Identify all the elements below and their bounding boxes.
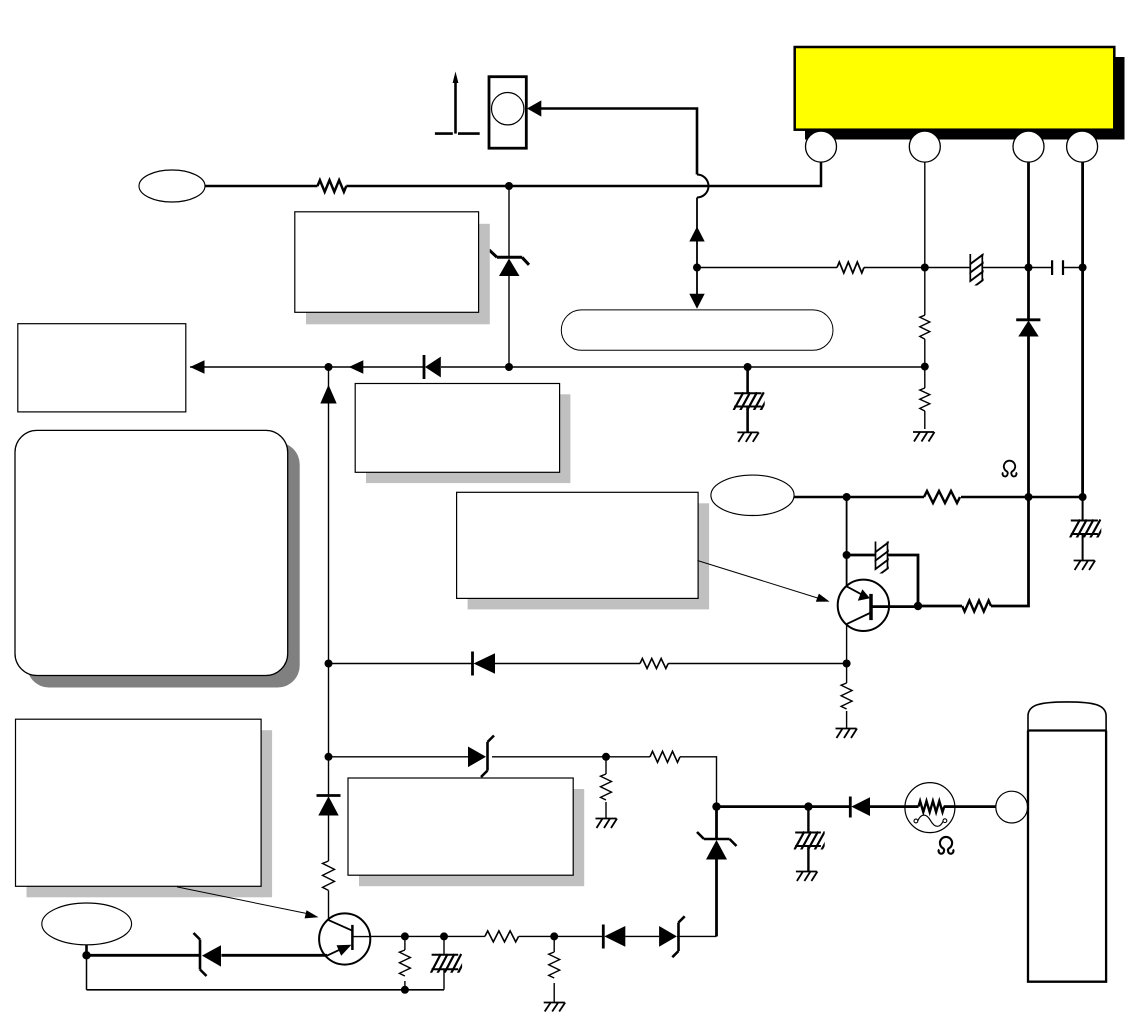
ground G4 xyxy=(836,729,858,739)
arrow into meter xyxy=(527,100,541,116)
node y756/R7v xyxy=(602,753,610,761)
node y936/R10v xyxy=(401,932,409,940)
wire bottom line y989 xyxy=(87,989,445,991)
node y497/pin4 xyxy=(1079,493,1087,501)
label box B4 shadow xyxy=(468,503,709,609)
label box B1 shadow xyxy=(306,224,490,324)
resistor R5 xyxy=(640,659,668,669)
ground G6 xyxy=(796,872,818,882)
cylinder probe xyxy=(1028,702,1106,982)
arrow into B2 xyxy=(190,360,205,373)
wire line y367 xyxy=(190,366,925,368)
wire zener drop xyxy=(508,186,510,367)
pin 2 circle xyxy=(909,131,940,162)
node y806/cap xyxy=(804,802,812,810)
feedthrough filter F1 (hatched) xyxy=(969,253,985,291)
wire thick emitter line y955 xyxy=(87,954,328,957)
capacitor C5 (hatched) + wires xyxy=(443,936,445,989)
terminal oval IN1 xyxy=(139,170,205,202)
resistor R2 xyxy=(837,262,864,273)
wire collector drop xyxy=(846,497,848,586)
wire junction down xyxy=(696,268,698,297)
impulse signal icon xyxy=(435,72,480,134)
label box B1 xyxy=(295,212,479,312)
wire pin4 to cap xyxy=(1082,497,1084,560)
ground G7 xyxy=(544,1003,566,1012)
wire hop to junction xyxy=(696,198,698,268)
wire cap drop y806 xyxy=(807,807,809,872)
node pin2/line367 xyxy=(921,363,929,371)
terminal oval IN3 xyxy=(42,903,132,945)
wire R4 to base node xyxy=(847,555,962,606)
node y267/pin4 xyxy=(1079,264,1087,272)
node y497/collector xyxy=(843,493,851,501)
resistor R9v on spine xyxy=(323,861,335,890)
arrow down to transfer pill xyxy=(689,294,704,309)
ground G1 xyxy=(737,432,759,442)
node bus/zener junction xyxy=(505,182,513,190)
capacitor C3 (hatched) xyxy=(732,392,770,412)
resistor R10v + wires xyxy=(404,936,406,989)
rounded transfer pill xyxy=(561,310,833,350)
node y663/spine xyxy=(325,660,333,668)
wire hop over bus xyxy=(697,175,709,198)
zener ZD3 below y806 node (pointing up) xyxy=(697,807,737,937)
resistor R4 (thick line) xyxy=(962,601,991,612)
lamp/thermistor TH1 xyxy=(905,783,955,833)
node y497/pin3 xyxy=(1025,493,1033,501)
capacitor C2 (hatched) xyxy=(1069,520,1107,540)
label box B2 (top-left plain) xyxy=(18,324,186,412)
resistor R7v + wire xyxy=(605,757,607,819)
node junction on vertical xyxy=(693,264,701,272)
transistor Q2 xyxy=(319,913,370,964)
wire y497 xyxy=(794,496,1083,499)
node y756/spine xyxy=(325,753,333,761)
capacitor C1 xyxy=(1052,260,1063,275)
zener ZD4 (pointing left) xyxy=(194,933,222,976)
annotation arrow B5 to Q2 xyxy=(177,887,319,919)
label box B4 xyxy=(457,492,698,598)
node y936/R12v xyxy=(550,932,558,940)
node y267/pin3 xyxy=(1025,264,1033,272)
yellow header box shadow xyxy=(805,57,1125,140)
wire line y663 xyxy=(329,663,847,665)
diode D7 (pointing left) xyxy=(850,797,870,818)
node collector top xyxy=(843,551,851,559)
diode D8 (pointing left) xyxy=(603,925,625,949)
meter M1 (rect with circle) xyxy=(489,77,526,149)
ohm symbol 2 xyxy=(939,837,954,854)
wire cap drop y367 xyxy=(746,367,749,432)
arrow up on spine xyxy=(320,385,336,404)
annotation arrow B4 to Q1 xyxy=(697,561,829,602)
node y663/emitter xyxy=(843,660,851,668)
label box B3 xyxy=(355,384,559,473)
terminal circle to cylinder xyxy=(996,791,1028,823)
transistor Q1 xyxy=(838,580,918,631)
big rounded box shadow xyxy=(27,442,300,687)
wire line y936 xyxy=(370,935,716,937)
node base xyxy=(914,602,922,610)
diode D1 (pointing left) xyxy=(424,355,441,379)
pin 4 circle xyxy=(1067,131,1098,162)
zener diode ZD1 xyxy=(489,250,529,276)
node pin2/bus267 xyxy=(921,264,929,272)
yellow header box xyxy=(795,47,1115,130)
wire spine x328 xyxy=(328,367,330,757)
resistor R12v + wires xyxy=(553,936,555,1002)
arrow mid y367 xyxy=(349,360,364,373)
capacitor C4 (hatched) xyxy=(793,832,831,852)
terminal oval IN2 xyxy=(711,475,794,515)
node y367/zener drop xyxy=(505,363,513,371)
node y367/spine xyxy=(325,363,333,371)
wire Q1 emitter down xyxy=(846,624,848,664)
label box B6 xyxy=(348,778,573,875)
resistor R8 xyxy=(650,751,680,762)
feedthrough filter F2 (hatched) xyxy=(874,541,890,579)
label box B5 xyxy=(16,719,262,886)
resistor R1 xyxy=(318,180,347,192)
node IN3/thick wire xyxy=(82,951,90,959)
wire horizontal y267 xyxy=(697,267,1083,269)
resistor R3v lower (pin2) xyxy=(920,388,930,411)
resistor R6v + wire xyxy=(846,664,848,729)
arrow up toward bus xyxy=(689,227,704,242)
label box B6 shadow xyxy=(359,789,584,886)
node bottom/R10v xyxy=(401,986,409,994)
diode D4 (pointing left) xyxy=(473,652,496,676)
diode D6 on spine (pointing up) xyxy=(317,757,341,861)
wire line y756 xyxy=(329,757,717,807)
big rounded box xyxy=(15,430,288,675)
pin 3 circle xyxy=(1013,131,1044,162)
node y367/cap drop xyxy=(744,363,752,371)
wire pin2 down xyxy=(924,162,926,429)
wire IN3 stem xyxy=(85,945,88,956)
diode D5 (pin3, pointing up) xyxy=(1016,320,1040,337)
wire thick y806 xyxy=(717,805,996,808)
ground G3 (pin4) xyxy=(1074,561,1096,571)
label box B5 shadow xyxy=(27,730,273,897)
zener ZD2 (pointing right) xyxy=(468,736,494,778)
label box B3 shadow xyxy=(366,394,570,483)
wire meter to vertical drop xyxy=(541,109,697,175)
ohm symbol 1 xyxy=(1003,461,1017,477)
resistor R11 xyxy=(485,931,519,942)
node y936/C5 xyxy=(440,932,448,940)
ground G2 (pin2) xyxy=(913,432,935,442)
wire pin4 down xyxy=(1081,162,1084,497)
resistor R2v upper (pin2) xyxy=(920,315,930,339)
node y806/zener xyxy=(712,802,720,810)
wire pin3 down xyxy=(991,162,1029,606)
ground G5 xyxy=(596,819,618,829)
pin 1 circle xyxy=(806,131,837,162)
resistor R5 xyxy=(924,491,960,503)
wire bus from IN1 xyxy=(205,161,821,186)
zener ZD5 (pointing right) xyxy=(659,916,685,957)
